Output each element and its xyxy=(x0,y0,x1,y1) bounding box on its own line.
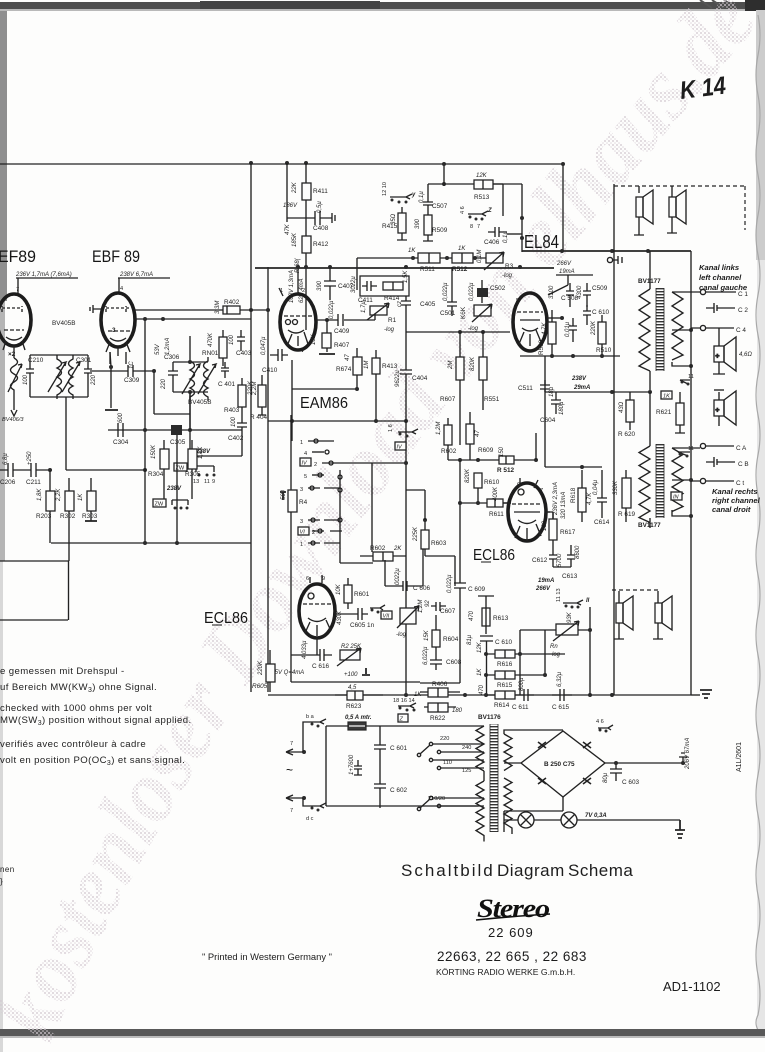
svg-text:R304: R304 xyxy=(148,471,164,478)
resistor R403 220K xyxy=(238,385,246,407)
svg-text:225K: 225K xyxy=(413,526,419,542)
svg-text:3100: 3100 xyxy=(549,285,555,299)
svg-text:R412: R412 xyxy=(313,241,329,248)
svg-text:4: 4 xyxy=(300,347,304,354)
svg-text:220K: 220K xyxy=(591,320,597,336)
resistor R402 3.3M xyxy=(223,306,240,314)
svg-text:1K: 1K xyxy=(458,246,466,252)
svg-text:4,7K: 4,7K xyxy=(542,322,548,335)
resistor R509 390 xyxy=(424,215,432,235)
svg-text:0,022µ: 0,022µ xyxy=(329,300,335,319)
svg-text:2M: 2M xyxy=(448,361,454,370)
svg-text:R303: R303 xyxy=(82,513,98,520)
wire bridge bottom xyxy=(504,811,563,826)
svg-text:12 10: 12 10 xyxy=(382,182,388,196)
svg-text:C206: C206 xyxy=(0,479,16,486)
svg-text:ZW: ZW xyxy=(155,502,164,508)
svg-text:600: 600 xyxy=(118,412,124,423)
svg-text:R1: R1 xyxy=(388,317,397,324)
svg-text:R614: R614 xyxy=(494,702,510,709)
svg-text:1,2M: 1,2M xyxy=(436,422,442,435)
svg-text:C 609: C 609 xyxy=(468,586,485,593)
svg-text:0,01µ: 0,01µ xyxy=(565,321,571,337)
svg-text:C 401: C 401 xyxy=(218,381,235,388)
svg-text:15K: 15K xyxy=(424,629,430,641)
capacitor C402 xyxy=(237,417,247,435)
svg-text:Z: Z xyxy=(399,717,404,723)
svg-text:22K: 22K xyxy=(292,181,298,194)
potentiometer Rn log xyxy=(556,624,578,635)
jack C4 xyxy=(700,325,705,330)
wire vertical x406 long xyxy=(405,386,407,695)
svg-text:820K: 820K xyxy=(465,468,471,483)
svg-text:C403: C403 xyxy=(236,350,252,357)
svg-text:180: 180 xyxy=(452,708,463,714)
svg-text:320 13mA: 320 13mA xyxy=(561,492,567,519)
svg-text:470: 470 xyxy=(469,610,475,621)
svg-text:0,5µ: 0,5µ xyxy=(317,201,323,213)
svg-text:470K: 470K xyxy=(208,332,214,347)
svg-text:C612: C612 xyxy=(532,557,548,564)
svg-text:C608: C608 xyxy=(446,659,462,666)
wire EBF89 anode right xyxy=(135,310,251,319)
svg-text:236V 1,7mA (7,6mA): 236V 1,7mA (7,6mA) xyxy=(15,272,72,278)
svg-text:186V: 186V xyxy=(283,203,298,209)
svg-text:3022µ: 3022µ xyxy=(351,276,357,293)
svg-text:220: 220 xyxy=(91,374,97,386)
coil antenna BV406/3 xyxy=(11,354,18,396)
wire y543 bottom row xyxy=(50,519,251,543)
svg-text:R513: R513 xyxy=(474,194,490,201)
svg-text:A1L/2601: A1L/2601 xyxy=(736,742,743,772)
resistor R674 xyxy=(353,357,362,375)
svg-text:1: 1 xyxy=(300,542,303,548)
potentiometer R3 -log xyxy=(486,253,503,263)
wire mains to transformer xyxy=(326,726,478,806)
wire measurement bracket EBF89 xyxy=(118,278,170,292)
svg-text:R607: R607 xyxy=(440,396,456,403)
svg-text:K6K: K6K xyxy=(460,306,467,319)
svg-text:R551: R551 xyxy=(484,396,500,403)
capacitor C407 390 xyxy=(324,267,336,300)
wire bus y251 xyxy=(522,250,691,252)
svg-text:7: 7 xyxy=(290,808,293,814)
svg-text:R511: R511 xyxy=(420,266,435,273)
svg-text:EBF 89: EBF 89 xyxy=(92,247,140,266)
wire measurement bracket EF89 xyxy=(16,278,78,293)
wire vertical x154 xyxy=(154,371,190,414)
svg-text:820K: 820K xyxy=(470,356,476,371)
svg-text:C 2: C 2 xyxy=(738,307,748,314)
ground R303 xyxy=(85,520,97,522)
svg-text:5: 5 xyxy=(304,474,307,480)
lamp L1 xyxy=(518,812,534,828)
svg-text:Schema: Schema xyxy=(568,861,633,880)
resistor R601 10K xyxy=(344,585,352,603)
wire EL84 anode xyxy=(547,317,562,319)
jack CA xyxy=(700,443,705,448)
svg-text:y: y xyxy=(411,192,416,198)
svg-text:C501: C501 xyxy=(440,310,456,317)
resistor R611 400K xyxy=(487,499,503,507)
svg-text:4 6: 4 6 xyxy=(460,206,466,214)
capacitor C508 xyxy=(566,283,574,307)
svg-text:7: 7 xyxy=(290,741,293,747)
svg-text:R674: R674 xyxy=(336,366,352,373)
svg-text:238V: 238V xyxy=(166,486,182,492)
svg-text:100: 100 xyxy=(23,374,29,385)
svg-text:238V: 238V xyxy=(571,376,587,382)
wire vertical x287 xyxy=(287,163,301,222)
svg-text:C607: C607 xyxy=(440,608,456,615)
svg-text:R617: R617 xyxy=(560,529,576,536)
capacitor C507 xyxy=(423,195,433,213)
resistor R415 xyxy=(398,213,406,233)
loudspeaker S2 xyxy=(667,186,686,233)
svg-text:43Ω: 43Ω xyxy=(619,401,625,413)
svg-text:0,1µ: 0,1µ xyxy=(503,231,509,243)
wire C305 down xyxy=(176,435,178,543)
potentiometer R1 -log xyxy=(370,306,387,315)
ground lamps xyxy=(675,820,685,838)
switch top right of bank xyxy=(398,429,418,434)
svg-text:C B: C B xyxy=(738,461,749,468)
loudspeaker S1 xyxy=(634,186,653,235)
svg-text:R414: R414 xyxy=(384,295,400,302)
svg-text:266V: 266V xyxy=(535,586,551,592)
svg-text:RN01: RN01 xyxy=(202,350,219,357)
svg-text:8: 8 xyxy=(470,224,473,230)
switch bank contacts xyxy=(308,439,372,545)
svg-text:11: 11 xyxy=(204,479,210,485)
svg-text:9: 9 xyxy=(212,479,215,485)
svg-text:Rn: Rn xyxy=(550,644,558,650)
capacitor C403 xyxy=(237,330,245,351)
svg-text:180µ: 180µ xyxy=(559,401,565,415)
test point xyxy=(607,257,612,262)
wire top bus xyxy=(0,163,563,165)
svg-text:110: 110 xyxy=(443,760,452,766)
wire y503 grid row xyxy=(460,502,511,504)
svg-text:R615: R615 xyxy=(497,682,513,689)
capacitor C410 xyxy=(270,349,288,361)
svg-text:R302: R302 xyxy=(60,513,76,520)
svg-text:19mA: 19mA xyxy=(538,578,554,584)
svg-text:-log: -log xyxy=(396,632,407,638)
tube EAM86 xyxy=(280,294,316,350)
wire dashed bottom speakers xyxy=(612,589,658,591)
svg-text:IN: IN xyxy=(673,495,680,501)
rectifier bridge B250C75 xyxy=(521,731,605,797)
svg-text:236V 2,3mA: 236V 2,3mA xyxy=(553,482,559,516)
capacitor C304 xyxy=(118,423,123,437)
svg-text:" Printed in Western Germany: " Printed in Western Germany " xyxy=(202,951,332,962)
wire IF2 frame xyxy=(173,336,208,392)
wire cathode row y389 xyxy=(292,388,357,390)
svg-text:8600: 8600 xyxy=(575,545,581,559)
capacitor C610 xyxy=(480,636,493,695)
svg-text:ECL86: ECL86 xyxy=(473,547,515,564)
svg-text:4300: 4300 xyxy=(577,285,583,299)
svg-text:2: 2 xyxy=(312,530,315,536)
svg-text:R610: R610 xyxy=(484,479,500,486)
svg-text:uf Bereich MW(KW3) ohne Signal: uf Bereich MW(KW3) ohne Signal. xyxy=(0,682,157,694)
svg-text:C211: C211 xyxy=(26,479,41,486)
svg-text:47: 47 xyxy=(345,354,351,361)
svg-text:6: 6 xyxy=(306,576,309,582)
svg-text:80µ: 80µ xyxy=(603,772,609,783)
tube EBF89 xyxy=(101,293,135,347)
ground right bottom xyxy=(700,690,712,698)
svg-text:2,2M: 2,2M xyxy=(252,382,258,396)
svg-text:C301: C301 xyxy=(76,357,92,364)
capacitor C608 xyxy=(430,655,442,670)
svg-text:C 610: C 610 xyxy=(592,309,609,316)
capacitor C511a 0.01 xyxy=(569,318,577,342)
capacitor C511 xyxy=(540,380,550,397)
svg-text:Schaltbild: Schaltbild xyxy=(401,861,495,880)
svg-text:400K: 400K xyxy=(493,486,499,501)
capacitor C502 (electrolytic) xyxy=(477,288,488,297)
capacitor C614 xyxy=(597,470,607,518)
wire EAM86 cathode down xyxy=(291,360,293,441)
wire R513 net right xyxy=(493,184,522,252)
svg-text:1 6: 1 6 xyxy=(388,424,394,432)
svg-text:C613: C613 xyxy=(562,573,578,580)
tube EF89 xyxy=(0,294,31,346)
svg-text:C t: C t xyxy=(736,480,744,487)
wire y356 row xyxy=(520,355,620,357)
svg-text:b a: b a xyxy=(306,714,315,720)
svg-text:R623: R623 xyxy=(346,703,362,710)
resistor R612 150 xyxy=(499,456,514,464)
svg-text:K 14: K 14 xyxy=(678,72,727,105)
svg-text:47: 47 xyxy=(475,430,481,437)
capacitor C409 xyxy=(338,314,343,326)
capacitor C603 xyxy=(610,763,683,781)
svg-text:C A: C A xyxy=(736,445,747,452)
svg-text:+: + xyxy=(716,407,720,414)
svg-text:C 602: C 602 xyxy=(390,787,407,794)
svg-text:C405: C405 xyxy=(420,301,436,308)
switch bridge out xyxy=(598,725,613,730)
svg-text:left channel: left channel xyxy=(699,273,742,282)
wire Rn net xyxy=(520,607,590,695)
svg-text:220: 220 xyxy=(161,378,167,390)
capacitor C408 xyxy=(301,211,335,225)
svg-text:BV1176: BV1176 xyxy=(478,714,501,721)
wire bus y267 main xyxy=(255,267,554,269)
svg-text:2: 2 xyxy=(314,462,317,468)
svg-text:C 603: C 603 xyxy=(622,779,639,786)
tube labels xyxy=(0,232,559,627)
capacitor C501 xyxy=(447,267,457,316)
svg-text:3: 3 xyxy=(300,487,303,493)
ground EBF89 cathode xyxy=(105,409,118,411)
svg-text:7: 7 xyxy=(477,224,480,230)
svg-text:100: 100 xyxy=(229,334,235,345)
svg-text:verifiés avec contrôleur à cad: verifiés avec contrôleur à cadre xyxy=(0,739,146,750)
svg-text:R 619: R 619 xyxy=(618,511,635,518)
svg-text:R616: R616 xyxy=(497,661,513,668)
switch R621 xyxy=(680,380,690,384)
svg-text:2: 2 xyxy=(302,288,305,294)
svg-text:330K: 330K xyxy=(613,480,619,495)
svg-text:53V: 53V xyxy=(155,343,161,355)
svg-text:C 601: C 601 xyxy=(390,745,407,752)
svg-text:KÖRTING RADIO WERKE G.m.b.H.: KÖRTING RADIO WERKE G.m.b.H. xyxy=(436,967,575,977)
switch Z bottom xyxy=(398,703,416,708)
tube ECL86 right xyxy=(508,483,546,541)
wire R513 net xyxy=(428,184,503,216)
wire vertical bus x251 xyxy=(250,163,252,692)
loudspeaker side A xyxy=(713,337,736,374)
transformer BV405B (IF 2) xyxy=(190,357,195,401)
svg-text:1,8K: 1,8K xyxy=(198,446,204,459)
svg-text:C304: C304 xyxy=(113,439,129,446)
resistor R623 xyxy=(347,691,363,700)
svg-text:R611: R611 xyxy=(489,511,504,518)
resistor R303 1K xyxy=(87,491,96,511)
capacitor C206 xyxy=(0,463,31,477)
wire vertical x291 xyxy=(290,415,292,682)
svg-text:R603: R603 xyxy=(431,540,447,547)
bottom caption Schaltbild Diagram Schema xyxy=(401,861,633,880)
svg-text:3: 3 xyxy=(112,327,116,334)
svg-text:R 404: R 404 xyxy=(250,414,267,421)
resistor R406 1K xyxy=(428,688,448,697)
svg-text:1,2mA: 1,2mA xyxy=(165,338,171,355)
svg-text:G: G xyxy=(517,482,521,488)
svg-text:C502: C502 xyxy=(490,285,506,292)
svg-text:92: 92 xyxy=(425,600,431,607)
wire y392 row xyxy=(545,356,650,392)
resistor R604 15K xyxy=(432,630,440,647)
capacitor C606 xyxy=(395,581,415,591)
capacitor small aux xyxy=(354,760,362,775)
svg-text:R 620: R 620 xyxy=(618,431,635,438)
node top bus junctions xyxy=(249,161,253,165)
svg-text:4,033µ: 4,033µ xyxy=(302,640,308,659)
voltage selector taps xyxy=(417,742,484,810)
svg-text:11: 11 xyxy=(688,446,694,452)
svg-text:R402: R402 xyxy=(224,299,240,306)
svg-text:10K: 10K xyxy=(311,333,317,345)
switch Z xyxy=(468,211,488,216)
svg-text:238V 6,7mA: 238V 6,7mA xyxy=(119,272,153,278)
resistor R605 220K xyxy=(266,664,275,682)
svg-text:C 610: C 610 xyxy=(495,639,512,646)
resistor R305 xyxy=(188,449,197,469)
left measurement notes xyxy=(0,666,192,886)
switch mains top xyxy=(303,719,326,752)
svg-text:C305: C305 xyxy=(170,439,186,446)
capacitor C605 1n xyxy=(335,608,368,620)
svg-text:19mA: 19mA xyxy=(559,269,575,275)
wire dashed speaker top xyxy=(614,186,745,230)
svg-text:1K: 1K xyxy=(477,668,483,676)
svg-text:1M: 1M xyxy=(364,361,370,369)
svg-text:1K: 1K xyxy=(663,394,670,400)
tube ECL86 left xyxy=(299,584,335,638)
capacitor C602 xyxy=(326,726,386,808)
tube EL84 xyxy=(513,293,547,351)
svg-text:R613: R613 xyxy=(493,615,509,622)
svg-text:125: 125 xyxy=(462,768,471,774)
svg-text:C614: C614 xyxy=(594,519,610,526)
node IV label xyxy=(300,458,311,466)
wire C606 net xyxy=(385,549,423,586)
svg-text:R605: R605 xyxy=(252,683,268,690)
wire vertical x444 xyxy=(443,164,445,186)
wire y421 row xyxy=(268,420,406,422)
svg-text:1K: 1K xyxy=(78,493,84,501)
resistor R511 1K xyxy=(418,253,440,263)
capacitor C615 xyxy=(552,689,572,701)
wire bus y258 xyxy=(357,258,486,290)
jack C1 xyxy=(700,289,705,294)
wire vertical x306 xyxy=(305,163,307,330)
svg-text:1,7µ: 1,7µ xyxy=(361,301,367,313)
svg-text:1K: 1K xyxy=(408,248,416,254)
wire ECL86R anode xyxy=(546,511,550,513)
resistor R610 820K xyxy=(474,473,482,488)
capacitor C509 xyxy=(583,283,591,307)
loudspeaker side B xyxy=(714,390,736,426)
capacitor C404 xyxy=(400,313,412,386)
svg-text:4,5: 4,5 xyxy=(348,685,357,691)
wire ECL86R grid xyxy=(503,502,511,504)
svg-text:R305: R305 xyxy=(185,471,201,478)
svg-text:13: 13 xyxy=(193,479,199,485)
capacitor C601 xyxy=(374,742,386,757)
svg-text:AD1-1102: AD1-1102 xyxy=(663,979,721,994)
svg-text:2,2K: 2,2K xyxy=(56,488,62,502)
wire x190 xyxy=(189,392,191,430)
svg-text:C409: C409 xyxy=(334,328,350,335)
resistor R613 470 xyxy=(482,608,490,626)
resistor R513 12K xyxy=(474,180,493,189)
svg-text:150K: 150K xyxy=(151,444,157,459)
svg-text:VII: VII xyxy=(383,614,390,620)
svg-text:35Ω: 35Ω xyxy=(391,213,397,225)
svg-text:right channel: right channel xyxy=(712,496,761,505)
wire vertical x563 xyxy=(562,164,564,251)
svg-text:130: 130 xyxy=(542,520,548,531)
resistor R619 330K xyxy=(622,478,631,508)
svg-text:Kanal links: Kanal links xyxy=(699,263,739,272)
wire y430 row xyxy=(108,429,242,431)
switch mains bottom xyxy=(303,798,326,808)
svg-text:9622µ: 9622µ xyxy=(395,370,401,387)
svg-text:150: 150 xyxy=(499,446,505,457)
svg-text:6,022µ: 6,022µ xyxy=(423,646,429,665)
wire switch bank to R602 xyxy=(340,463,455,586)
ground R2 xyxy=(362,668,370,675)
svg-text:checked with 1000 ohms per vol: checked with 1000 ohms per volt xyxy=(0,703,152,714)
svg-text:12K: 12K xyxy=(477,641,483,653)
svg-text:+100: +100 xyxy=(344,672,358,678)
svg-text:185K: 185K xyxy=(292,232,298,247)
svg-text:C 616: C 616 xyxy=(312,663,329,670)
svg-text:R411: R411 xyxy=(313,188,328,195)
svg-text:C404: C404 xyxy=(412,375,428,382)
loudspeaker S4 xyxy=(653,591,672,639)
wire lamps xyxy=(504,819,680,821)
resistor R512 1K xyxy=(452,253,473,263)
capacitor C609 xyxy=(420,556,466,683)
svg-text:-log: -log xyxy=(502,273,513,279)
